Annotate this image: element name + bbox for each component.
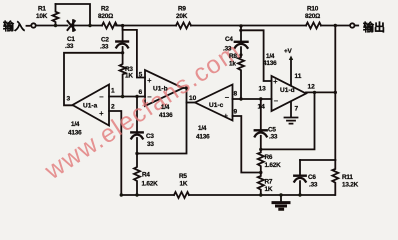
resistor R4 — [134, 154, 140, 196]
ground pin7 — [285, 118, 298, 124]
node dot C3 top — [135, 95, 138, 98]
svg-text:9: 9 — [234, 109, 238, 116]
wire U1-d output — [306, 91, 335, 93]
wire R10 to output — [321, 25, 350, 27]
svg-text:U1-b: U1-b — [153, 86, 168, 93]
wire R1 top loop — [56, 4, 91, 26]
svg-text:1.62K: 1.62K — [142, 181, 159, 188]
svg-text:6: 6 — [139, 89, 143, 96]
svg-text:R1: R1 — [38, 6, 46, 13]
capacitor C5 — [260, 99, 262, 130]
svg-text:C3: C3 — [146, 133, 154, 140]
capacitor C3 — [136, 97, 138, 132]
resistor R10 — [306, 23, 321, 29]
node dot gnd rail — [279, 193, 282, 196]
svg-text:1k: 1k — [229, 61, 236, 68]
svg-text:12: 12 — [308, 84, 316, 91]
svg-text:R8: R8 — [229, 53, 237, 60]
svg-text:3: 3 — [67, 96, 71, 103]
wire input to C1 — [36, 25, 68, 27]
wire feedback to C5-R6 node — [261, 92, 315, 149]
wire C6 top link — [300, 159, 335, 161]
resistor R3 — [120, 53, 126, 97]
node dot U1-b out — [185, 86, 188, 89]
svg-text:U1-a: U1-a — [83, 103, 98, 110]
svg-text:−: − — [225, 93, 230, 102]
svg-text:2: 2 — [111, 104, 115, 111]
capacitor C6 — [299, 160, 301, 175]
svg-text:4136: 4136 — [263, 60, 277, 67]
svg-text:C6: C6 — [308, 174, 316, 181]
svg-text:R10: R10 — [307, 6, 319, 13]
node dot C4 rail — [239, 24, 242, 27]
node dot R7 rail — [259, 193, 262, 196]
svg-text:+: + — [147, 76, 152, 85]
wire pin10 — [187, 102, 196, 104]
wire U1-b out down to C3 node — [137, 88, 187, 154]
svg-text:4136: 4136 — [159, 112, 173, 119]
node dot C6 rail — [298, 193, 301, 196]
svg-text:33: 33 — [147, 141, 154, 148]
wire bottom rail right — [189, 194, 335, 196]
node input terminal — [31, 23, 35, 27]
svg-text:U1-d: U1-d — [280, 87, 295, 94]
svg-text:1/4: 1/4 — [266, 53, 275, 60]
wire bottom rail left — [121, 194, 174, 196]
svg-text:4136: 4136 — [68, 130, 82, 137]
node dot C4 R8 — [239, 53, 242, 56]
node dot out 313 — [313, 91, 316, 94]
svg-text:7: 7 — [295, 106, 299, 113]
svg-text:11: 11 — [295, 73, 302, 80]
svg-text:1/4: 1/4 — [71, 121, 80, 128]
svg-text:C4: C4 — [225, 36, 233, 43]
resistor R6 — [258, 149, 264, 172]
svg-text:R6: R6 — [265, 154, 273, 161]
resistor R11 — [332, 160, 338, 195]
svg-text:4136: 4136 — [196, 134, 210, 141]
svg-text:输入: 输入 — [3, 19, 25, 33]
node dot output junction — [334, 24, 337, 27]
wire pin5 jog — [123, 26, 145, 78]
svg-text:13: 13 — [259, 86, 267, 93]
node dot jog13 — [239, 29, 242, 32]
resistor R7 — [258, 173, 264, 196]
svg-text:.33: .33 — [100, 44, 109, 51]
svg-text:1/4: 1/4 — [161, 104, 170, 111]
wire rail R2 to R9 — [116, 25, 176, 27]
svg-text:+: + — [273, 77, 278, 86]
svg-text:.33: .33 — [269, 134, 278, 141]
svg-text:−: − — [274, 97, 279, 106]
svg-text:R9: R9 — [178, 6, 186, 13]
svg-text:C1: C1 — [67, 36, 75, 43]
wire pin8 pin14 row — [233, 98, 272, 100]
svg-text:14: 14 — [258, 104, 266, 111]
capacitor C2 — [122, 26, 124, 41]
resistor R8 — [238, 55, 244, 99]
node dot pin2 rail — [120, 193, 123, 196]
wire U1-b output — [183, 87, 187, 89]
svg-text:.33: .33 — [65, 43, 74, 50]
svg-text:+: + — [224, 112, 229, 121]
ground earth bottom — [280, 195, 282, 202]
wire pin9 jog — [233, 116, 261, 173]
svg-text:+V: +V — [284, 48, 293, 55]
capacitor C4 — [240, 26, 242, 41]
svg-text:8: 8 — [234, 91, 238, 98]
node dot after R2 — [121, 24, 124, 27]
wire input tick — [27, 25, 30, 27]
svg-text:5: 5 — [139, 72, 143, 79]
svg-text:R4: R4 — [142, 172, 150, 179]
svg-text:20K: 20K — [176, 13, 188, 20]
svg-text:R11: R11 — [342, 174, 353, 181]
svg-text:.33: .33 — [309, 182, 318, 189]
svg-text:R2: R2 — [101, 6, 109, 13]
node dot C5-R6 — [259, 148, 262, 151]
svg-text:10: 10 — [189, 95, 197, 102]
svg-text:10K: 10K — [36, 13, 48, 20]
svg-text:U1-c: U1-c — [209, 102, 224, 109]
wire pin1 row — [109, 96, 145, 98]
op-amp U1-b — [145, 70, 183, 106]
svg-text:R7: R7 — [265, 179, 273, 186]
op-amp U1-a — [73, 85, 110, 126]
svg-text:.33: .33 — [223, 46, 232, 53]
resistor R1 — [53, 4, 59, 26]
node dot out 335 — [334, 91, 337, 94]
wire loop to U1-a input — [64, 53, 123, 106]
node dot R4 rail — [135, 193, 138, 196]
wire pin7 ground lead — [290, 102, 292, 118]
wire pin2 down — [109, 111, 121, 195]
svg-text:R5: R5 — [179, 173, 187, 180]
node dot R3 pin1 — [121, 95, 124, 98]
node dot loop return — [88, 24, 91, 27]
node output terminal — [350, 23, 354, 27]
svg-text:820Ω: 820Ω — [305, 13, 320, 20]
node dot R8 join — [239, 97, 242, 100]
svg-text:1/4: 1/4 — [198, 125, 207, 132]
node dot R1 bottom — [54, 24, 57, 27]
node dot C2-R3-loop — [121, 51, 124, 54]
wire output column — [334, 26, 336, 161]
svg-text:−: − — [147, 93, 152, 102]
svg-text:C2: C2 — [101, 37, 109, 44]
svg-text:输出: 输出 — [363, 20, 385, 34]
node dot C3-R4 — [135, 152, 138, 155]
resistor R2 — [102, 23, 123, 29]
capacitor C1 — [68, 21, 75, 30]
wire +V pin11 — [290, 59, 292, 86]
svg-text:C5: C5 — [268, 127, 276, 134]
wire pin13 jog — [241, 30, 272, 81]
svg-text:−: − — [99, 93, 104, 102]
op-amp U1-d — [272, 76, 307, 111]
svg-text:13.2K: 13.2K — [342, 182, 359, 189]
op-amp U1-c — [195, 85, 233, 121]
resistor R5 — [174, 192, 189, 198]
svg-text:1: 1 — [111, 88, 115, 95]
resistor R9 — [176, 23, 191, 29]
svg-text:+: + — [99, 109, 104, 118]
svg-text:1K: 1K — [265, 186, 273, 193]
svg-text:1.62K: 1.62K — [265, 162, 282, 169]
svg-text:1K: 1K — [125, 73, 133, 80]
wire output tick — [355, 25, 358, 27]
node dot C5 top — [259, 97, 262, 100]
svg-text:820Ω: 820Ω — [98, 13, 113, 20]
svg-text:1K: 1K — [180, 181, 188, 188]
node dot R6-R7 — [259, 171, 262, 174]
wire rail R9 to R10 — [191, 25, 306, 27]
